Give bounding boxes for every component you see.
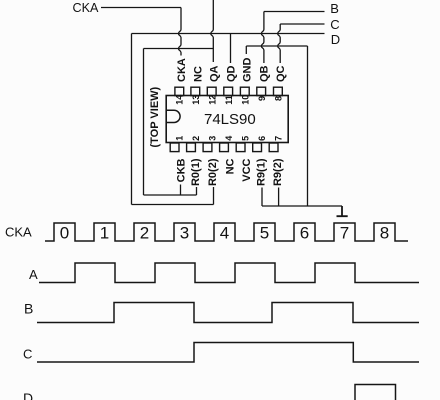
svg-text:14: 14 [175,95,185,105]
pin 6 square [253,143,262,152]
wire R9(2) drop [278,188,280,207]
svg-text:QB: QB [259,65,271,82]
pin 3 square [203,143,212,152]
svg-text:CKA: CKA [5,225,32,240]
pin 7 square [269,143,278,152]
svg-text:CKA: CKA [73,1,99,15]
svg-text:C: C [330,17,339,32]
pin 8 square [274,87,283,95]
svg-text:2: 2 [140,224,149,243]
wire CKB drop [180,185,182,196]
wire R9(1) drop [261,188,263,207]
svg-text:2: 2 [191,136,201,141]
svg-text:QA: QA [208,65,220,82]
svg-text:A: A [29,267,38,282]
wire feedback left vertical [143,49,145,196]
svg-text:5: 5 [241,136,251,141]
svg-text:10: 10 [240,95,250,105]
svg-text:8: 8 [274,96,284,101]
svg-text:(TOP VIEW): (TOP VIEW) [149,86,161,147]
wire R0(2) riser [213,187,215,205]
svg-text:D: D [331,32,340,47]
svg-text:6: 6 [300,224,309,243]
svg-text:9: 9 [257,96,267,101]
pin 1 square [170,143,179,152]
pin 10 square [240,87,249,95]
waveform A output [39,263,419,283]
IC notch [167,110,180,122]
wire GND right vertical [307,46,309,206]
svg-text:3: 3 [208,136,218,141]
svg-text:QD: QD [225,65,237,82]
wire D horizontal from label to left side [132,33,325,35]
ground [337,206,348,216]
svg-text:GND: GND [241,58,253,82]
pin 11 square [224,87,233,95]
wire C horizontal [280,23,324,25]
pin 5 square [236,143,245,152]
wire QA to CKB feedback horizontal [144,48,214,50]
pin 14 square [175,87,184,95]
svg-text:6: 6 [257,136,267,141]
svg-text:CKA: CKA [176,58,188,82]
svg-text:3: 3 [180,224,189,243]
wire QB vertical with hops [261,12,264,64]
waveform C output [37,343,419,363]
svg-text:4: 4 [220,224,229,243]
svg-text:R9(1): R9(1) [256,158,268,186]
svg-text:B: B [24,301,33,317]
wire D-line left vertical down [131,34,133,205]
wire feedback bottom horizontal [144,194,197,196]
svg-text:7: 7 [274,136,284,141]
svg-text:74LS90: 74LS90 [204,111,256,128]
svg-text:13: 13 [191,95,201,105]
svg-text:R0(1): R0(1) [190,158,202,186]
svg-text:C: C [23,347,32,362]
svg-text:8: 8 [380,224,389,243]
svg-text:7: 7 [340,224,349,243]
svg-text:1: 1 [100,224,109,243]
waveform D output [355,385,396,400]
svg-text:R9(2): R9(2) [272,158,284,186]
pin 2 square [187,143,196,152]
IC U1 74LS90 body [166,96,288,143]
wire GND horizontal [246,45,307,47]
svg-text:CKB: CKB [176,158,188,182]
svg-text:0: 0 [60,224,69,243]
wire R0(1) riser [196,187,198,195]
pin 13 square [191,87,200,95]
wire bottom horizontal to R0(2) [132,204,214,206]
wire GND stub [245,46,247,54]
svg-text:5: 5 [260,224,269,243]
wire R9 ground rail [262,205,342,207]
pin 12 square [207,87,216,95]
svg-text:NC: NC [193,66,205,82]
svg-text:4: 4 [224,136,234,141]
wire CKA horizontal [101,7,181,9]
wire QC vertical with hops [278,24,281,63]
wire QA from top edge [211,0,214,62]
waveform CKA clock [45,223,408,241]
svg-text:QC: QC [275,65,287,82]
svg-text:12: 12 [207,95,217,105]
svg-text:NC: NC [224,158,236,174]
wire CKA vertical with hops [178,8,181,56]
svg-text:B: B [330,1,339,16]
svg-text:R0(2): R0(2) [207,158,219,186]
svg-text:D: D [23,390,33,400]
pin 9 square [257,87,266,95]
wire QD drop from D line [230,34,232,64]
pin 4 square [220,143,229,152]
svg-text:VCC: VCC [241,158,253,181]
svg-text:1: 1 [175,136,185,141]
waveform B output [37,303,419,323]
wire B horizontal [264,11,325,13]
svg-text:11: 11 [224,95,234,105]
